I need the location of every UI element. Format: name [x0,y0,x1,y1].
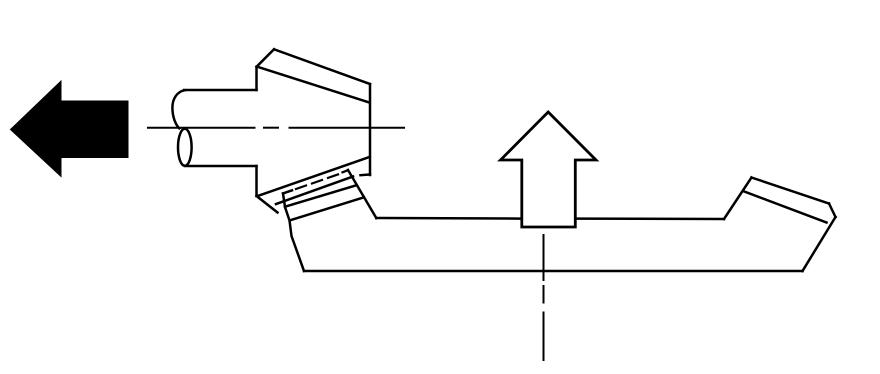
gear rim bottom edge [304,270,803,273]
shaft rounded left end, upper arc [172,90,184,128]
pinion cone top step [255,67,258,90]
left tooth flange bottom line [290,197,364,220]
pinion cone bottom slant edge [257,196,278,213]
gear rim left wall [285,207,304,271]
pinion cone top chamfer line [258,67,370,103]
right tooth flange top edge [752,178,830,204]
left tooth flange end face tick [283,193,285,207]
left tooth flange solid lead of hidden edge [283,190,292,193]
left tooth flange middle line [286,185,356,206]
pinion shaft bottom line [185,165,257,168]
pinion cone bottom step [255,166,258,196]
right tooth flange inner bend edge [724,178,752,220]
pinion cone peak edge [257,49,275,67]
pinion cone right edge [369,84,372,175]
right tooth flange middle line [743,191,827,223]
left tooth flange inner bend edge [348,170,376,218]
right tooth flange end face [829,204,836,218]
gear rim right wall [803,217,836,271]
pinion cone bottom silhouette, visible tip at right [361,173,371,176]
shaft rounded left end, lower ellipse [178,129,192,166]
gear rim top edge, right of arrow stem [577,217,724,220]
hollow up arrow (separating force direction) [501,112,597,227]
gear rim top edge, left of arrow stem [376,217,519,220]
left tooth flange hidden edge (dashed) [296,170,348,189]
pinion cone top silhouette [274,49,370,84]
vertical dash-dot centerline of gear axis [543,235,545,360]
horizontal dash-dot centerline of pinion shaft [148,127,404,129]
pinion cone bottom chamfer line [258,157,370,196]
solid black arrow pointing left (axial thrust direction) [11,81,129,177]
pinion shaft top line [184,89,257,92]
pinion cone bottom silhouette [276,177,353,205]
